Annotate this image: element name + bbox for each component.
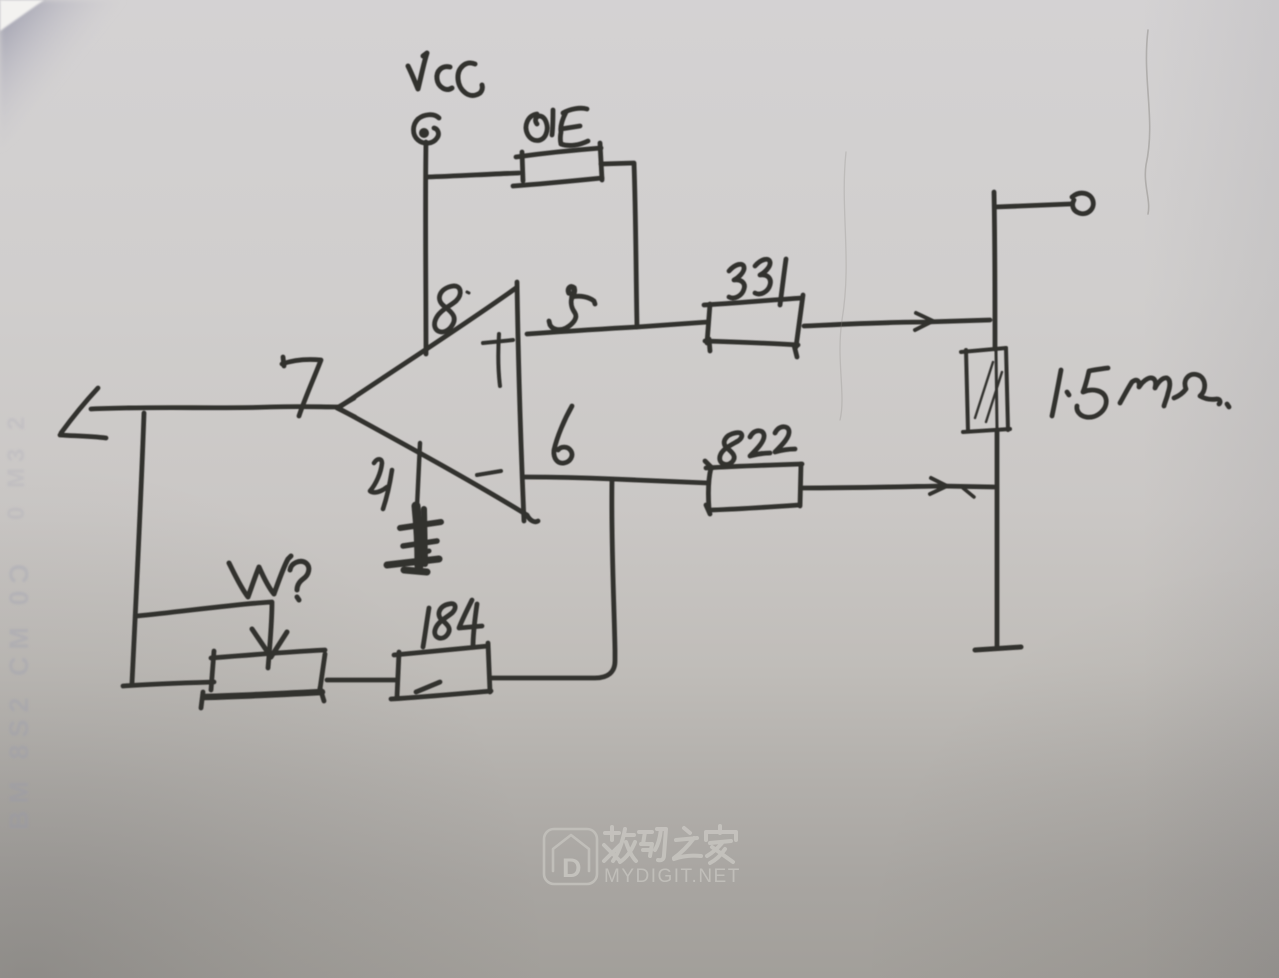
op-amp U1 <box>338 282 538 522</box>
photoresistor R5 <box>961 348 1010 432</box>
stray dot <box>467 292 469 293</box>
paper creases <box>840 30 1150 420</box>
arrow at op-amp output <box>337 398 355 417</box>
minus input marker <box>477 471 501 475</box>
wire VCC to pin 8 <box>423 142 428 354</box>
pin label 7 <box>282 357 321 416</box>
wire pin 6 to R4 <box>490 480 615 678</box>
value label 184 <box>423 600 482 647</box>
wire LDR to ground <box>995 431 1000 647</box>
resistor R1 01E <box>513 143 602 186</box>
net label VCC <box>408 53 482 95</box>
terminal OUT top right <box>995 204 1070 207</box>
terminal VCC <box>414 115 440 143</box>
wire output pin 7 <box>91 407 338 409</box>
watermark chinese text <box>604 826 736 863</box>
pin label 4 <box>370 459 392 509</box>
arrow on wire <box>930 478 947 494</box>
plus input marker <box>483 334 513 386</box>
potentiometer W <box>201 650 325 708</box>
wire R2 to node A <box>804 320 990 326</box>
value label 822 <box>720 427 795 465</box>
pin label 6 <box>554 406 572 463</box>
svg-text:MYDIGIT.NET: MYDIGIT.NET <box>604 866 741 887</box>
pin label 8 <box>435 286 461 332</box>
value label 1.5MΩ <box>1052 368 1229 417</box>
value label 01E <box>526 108 588 145</box>
wire R1 to pin 5 node <box>601 163 637 327</box>
svg-text:0 M3 2: 0 M3 2 <box>3 411 30 520</box>
resistor R4 184 <box>391 643 491 699</box>
wire potentiometer to R4 <box>327 678 397 683</box>
resistor R2 331 <box>704 295 803 357</box>
resistor R3 822 <box>705 461 802 514</box>
ground right <box>975 647 1021 650</box>
wire pin 4 to ground <box>417 443 420 507</box>
wire pin 6 to R3 <box>525 477 708 483</box>
svg-text:D: D <box>562 853 582 883</box>
label W? <box>229 556 309 600</box>
wire output to potentiometer <box>132 413 144 683</box>
connector input left <box>61 388 98 433</box>
arrow on wire <box>915 313 933 330</box>
wire R3 to node B <box>803 486 994 488</box>
watermark logo <box>544 829 597 884</box>
value label 331 <box>729 259 786 305</box>
pin label 5 <box>549 287 595 330</box>
svg-text:BM 8S2 CM 0Ɔ: BM 8S2 CM 0Ɔ <box>4 557 34 830</box>
ground pin 4 <box>387 506 441 572</box>
wire node A vertical <box>994 192 995 349</box>
bleed-through text left edge <box>3 411 34 830</box>
wire VCC to R1 <box>427 173 519 177</box>
wire pin 5 to R2 <box>527 322 708 334</box>
wiper arrow <box>137 602 272 668</box>
